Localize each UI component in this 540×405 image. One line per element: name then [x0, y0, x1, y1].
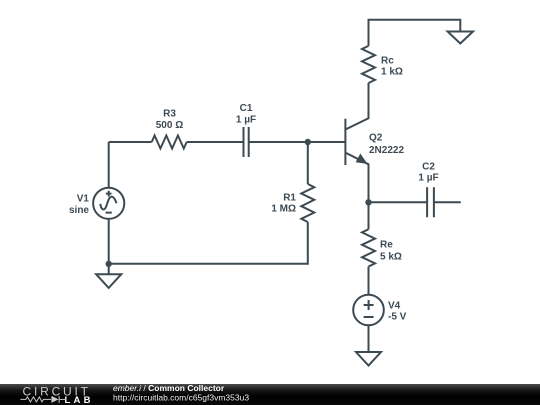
svg-text:2N2222: 2N2222 — [369, 145, 404, 156]
svg-text:Rc: Rc — [381, 56, 394, 67]
svg-text:http://circuitlab.com/c65gf3vm: http://circuitlab.com/c65gf3vm353u3 — [113, 392, 249, 402]
svg-text:R1: R1 — [283, 193, 296, 204]
svg-text:1 MΩ: 1 MΩ — [271, 204, 296, 215]
svg-text:-5 V: -5 V — [388, 312, 407, 323]
svg-text:R3: R3 — [163, 109, 176, 120]
svg-text:LAB: LAB — [65, 395, 94, 405]
svg-text:C2: C2 — [422, 162, 435, 173]
svg-text:sine: sine — [69, 205, 89, 216]
svg-text:1 kΩ: 1 kΩ — [381, 67, 403, 78]
svg-text:V1: V1 — [77, 194, 90, 205]
svg-text:C1: C1 — [240, 103, 253, 114]
svg-text:1 µF: 1 µF — [418, 173, 438, 184]
svg-text:Q2: Q2 — [369, 133, 383, 144]
svg-text:5 kΩ: 5 kΩ — [380, 252, 402, 263]
svg-text:V4: V4 — [388, 301, 401, 312]
svg-text:500 Ω: 500 Ω — [156, 120, 183, 131]
svg-text:1 µF: 1 µF — [236, 115, 256, 126]
svg-text:Re: Re — [380, 240, 393, 251]
